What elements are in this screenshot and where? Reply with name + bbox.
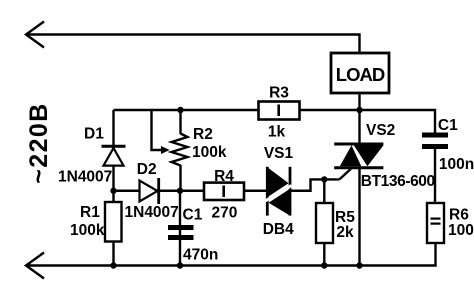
diode D1	[102, 146, 126, 165]
svg-text:VS2: VS2	[366, 122, 395, 139]
svg-text:R3: R3	[269, 85, 289, 102]
svg-text:1k: 1k	[268, 124, 286, 141]
junction dot rail-R2	[177, 107, 183, 113]
wire horizontal D2-R4 net	[114, 190, 268, 192]
svg-text:100k: 100k	[70, 222, 105, 239]
load LOAD	[331, 53, 389, 93]
triac VS2	[334, 144, 383, 168]
capacitor C1 100n	[422, 133, 448, 150]
svg-text:270: 270	[211, 204, 237, 221]
junction dot bus-R5	[321, 262, 327, 268]
AC terminal arrow top	[26, 22, 44, 48]
svg-text:1N4007: 1N4007	[125, 204, 179, 221]
wire VS1 to gate node	[290, 179, 339, 190]
wire gate diagonal	[339, 169, 351, 180]
potentiometer R2 zigzag	[172, 134, 188, 166]
svg-text:R1: R1	[80, 204, 100, 221]
svg-text:1N4007: 1N4007	[58, 169, 112, 186]
svg-text:D2: D2	[137, 161, 157, 178]
resistor R1	[105, 202, 122, 242]
diac VS1	[266, 167, 292, 216]
diode D2	[140, 178, 159, 204]
svg-text:BT136-600: BT136-600	[361, 173, 435, 190]
resistor R6	[427, 203, 444, 243]
wire D1-R1 branch	[112, 110, 114, 266]
svg-text:R4: R4	[214, 168, 234, 185]
R2 wiper arrowhead	[161, 146, 170, 154]
junction dot gate-R5	[321, 176, 327, 182]
svg-text:2k: 2k	[336, 224, 354, 241]
AC source label ~220B	[25, 102, 53, 183]
wire C1 100n / R6 branch	[434, 149, 436, 203]
junction dot bus-R1	[110, 262, 116, 268]
wire triac to bottom bus	[358, 168, 360, 266]
svg-text:D1: D1	[84, 125, 104, 142]
junction dot R2-C1	[177, 188, 183, 194]
svg-text:100k: 100k	[192, 144, 227, 161]
svg-text:100: 100	[448, 222, 474, 239]
junction dot bus-triac	[356, 262, 362, 268]
junction dot rail-LOAD	[356, 107, 362, 113]
resistor R3	[259, 102, 300, 120]
svg-text:100n: 100n	[439, 156, 474, 173]
wire R2 branch	[179, 110, 181, 134]
svg-text:C1: C1	[438, 117, 458, 134]
wire bottom bus	[26, 243, 436, 266]
svg-text:~220B: ~220B	[25, 102, 53, 183]
resistor R4	[204, 183, 244, 200]
svg-text:LOAD: LOAD	[336, 64, 385, 85]
svg-text:R2: R2	[193, 126, 213, 143]
resistor R5	[316, 203, 333, 243]
wire R5 branch	[323, 179, 325, 265]
junction dot D1-D2-R1	[110, 188, 116, 194]
wire LOAD to triac	[358, 93, 360, 144]
svg-text:VS1: VS1	[264, 145, 294, 162]
wire top rail	[26, 35, 360, 54]
capacitor C1 470n	[168, 225, 194, 240]
junction dot bus-C1	[177, 262, 183, 268]
svg-text:DB4: DB4	[263, 221, 294, 238]
wire C1 470n branch	[179, 191, 181, 266]
wire mid rail	[114, 110, 436, 133]
svg-text:470n: 470n	[183, 247, 218, 264]
wire R2 bottom to node	[179, 165, 181, 191]
AC terminal arrow bottom	[26, 253, 44, 279]
svg-text:R6: R6	[449, 206, 469, 223]
wire R2 wiper	[152, 110, 163, 150]
svg-text:C1: C1	[183, 207, 203, 224]
